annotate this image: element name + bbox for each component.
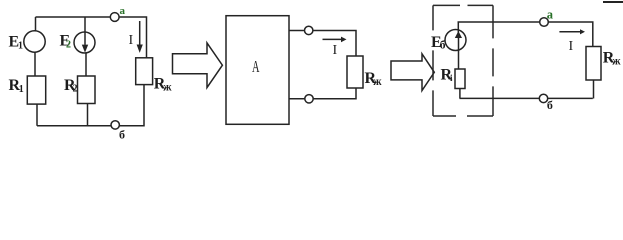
- svg-text:ж: ж: [612, 56, 621, 68]
- svg-text:1: 1: [19, 84, 24, 95]
- svg-text:ж: ж: [163, 81, 172, 93]
- svg-text:2: 2: [73, 84, 78, 95]
- svg-text:1: 1: [18, 41, 23, 52]
- svg-text:I: I: [569, 39, 574, 54]
- svg-text:a: a: [120, 5, 126, 17]
- svg-text:A: A: [252, 57, 260, 76]
- svg-text:б: б: [440, 40, 446, 52]
- svg-text:б: б: [547, 98, 553, 112]
- svg-text:I: I: [129, 33, 134, 48]
- svg-text:ж: ж: [373, 76, 382, 88]
- svg-text:б: б: [119, 127, 125, 140]
- svg-text:2: 2: [66, 40, 71, 51]
- svg-text:a: a: [547, 8, 554, 22]
- svg-text:I: I: [333, 43, 338, 58]
